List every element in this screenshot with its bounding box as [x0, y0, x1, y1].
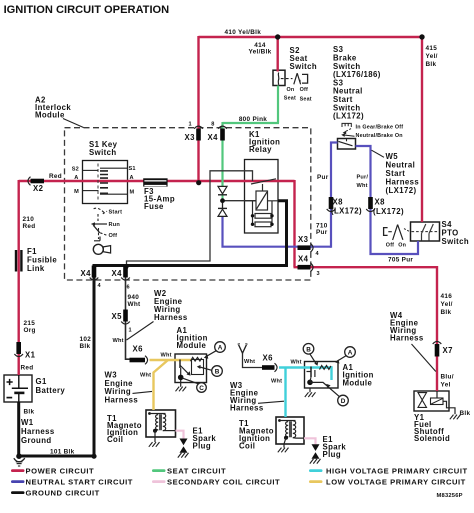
node top right corner: [419, 34, 424, 39]
wire X4 top down to diode (seat): [221, 122, 223, 186]
legend power circuit: [11, 469, 25, 472]
wire X6 left to module (low voltage primary): [150, 359, 192, 361]
key switch terminal M-right line: [100, 193, 128, 195]
wire stub to X6 right: [243, 353, 263, 368]
wire 710 Pur up to S3 switch (neutral start): [331, 143, 338, 248]
wire drop to right coil (high voltage primary): [284, 368, 286, 418]
svg-text:705 Pur: 705 Pur: [388, 257, 413, 264]
connector X8 right hook: [366, 209, 375, 212]
svg-text:Neutral/Brake On: Neutral/Brake On: [356, 133, 403, 139]
svg-text:Wht: Wht: [271, 379, 282, 385]
pointer A2 interlock module: [63, 119, 84, 128]
wire 800 Pink horizontal (seat): [223, 122, 280, 124]
connector X5 bar: [123, 310, 128, 322]
svg-text:Yel/Blk: Yel/Blk: [248, 49, 271, 56]
svg-text:SEAT CIRCUIT: SEAT CIRCUIT: [167, 466, 226, 475]
svg-text:HIGH VOLTAGE PRIMARY CIRCUIT: HIGH VOLTAGE PRIMARY CIRCUIT: [326, 466, 468, 475]
svg-text:Pur: Pur: [317, 174, 329, 181]
terminal circle C left: [197, 383, 207, 393]
svg-text:Harness: Harness: [105, 395, 139, 404]
svg-text:800 Pink: 800 Pink: [239, 116, 267, 123]
svg-text:Off: Off: [300, 87, 308, 93]
wire relay common thin black to X4 pin6: [127, 171, 253, 266]
svg-text:M: M: [130, 190, 135, 196]
ground module right: [309, 388, 311, 392]
svg-text:415: 415: [426, 45, 438, 52]
svg-text:Harness: Harness: [154, 313, 188, 322]
node X4 pin6 junction: [124, 264, 129, 269]
svg-text:Module: Module: [35, 111, 65, 120]
svg-text:A: A: [348, 350, 353, 357]
diode CR2 (lower): [218, 207, 227, 209]
pointer W3 left harness: [133, 391, 153, 393]
wire right coil to spark plug (secondary coil): [304, 438, 316, 444]
node diode junction: [220, 198, 225, 203]
PTO switch S4 box: [411, 222, 440, 241]
svg-text:B: B: [306, 346, 311, 353]
connector X4 bottom-left hook: [90, 278, 99, 281]
connector X2 hook: [28, 177, 31, 186]
node emitter dot right: [307, 380, 313, 386]
svg-text:S1: S1: [129, 166, 136, 172]
wire diode to X3 right corner (neutral start): [223, 216, 332, 246]
svg-text:Pur/: Pur/: [357, 175, 369, 181]
svg-text:Plug: Plug: [323, 450, 342, 459]
svg-text:Off: Off: [386, 242, 394, 248]
svg-text:215: 215: [24, 320, 36, 327]
svg-text:X7: X7: [443, 346, 453, 355]
pointer W4 harness: [412, 344, 436, 372]
svg-text:Blu/: Blu/: [441, 374, 454, 381]
svg-text:Harness: Harness: [21, 427, 55, 436]
legend seat circuit: [152, 469, 166, 472]
W5 pointer line: [372, 150, 385, 157]
svg-text:Yel/: Yel/: [441, 301, 453, 308]
node emitter dot: [178, 375, 184, 381]
legend high voltage primary circuit: [309, 469, 323, 472]
ground lead Y1: [443, 401, 455, 414]
terminal circle A left: [197, 342, 226, 393]
svg-text:Blk: Blk: [460, 410, 471, 417]
wire key switch row / fuse row (power): [19, 180, 295, 182]
svg-text:(LX172): (LX172): [333, 112, 364, 121]
ground plug right: [310, 459, 321, 464]
svg-text:Battery: Battery: [36, 386, 66, 395]
svg-text:Wht: Wht: [357, 183, 368, 189]
pointer line A right: [337, 355, 347, 361]
ground coil right: [284, 438, 286, 448]
key position Start dash: [103, 211, 107, 214]
key switch contact bars: [100, 171, 108, 193]
connector X8 left hook: [327, 209, 336, 212]
legend ground circuit: [11, 491, 25, 494]
wire left coil to spark plug (secondary coil): [176, 431, 184, 439]
key switch terminal S1 line: [100, 167, 128, 169]
ground plug left: [178, 453, 189, 458]
svg-text:Harness: Harness: [390, 334, 424, 343]
svg-text:GROUND CIRCUIT: GROUND CIRCUIT: [26, 488, 100, 497]
svg-text:A: A: [74, 175, 78, 181]
seat switch S2 box: [273, 70, 285, 85]
resistor R-a: [255, 214, 271, 219]
svg-text:Link: Link: [27, 264, 45, 273]
svg-text:SECONDARY COIL CIRCUIT: SECONDARY COIL CIRCUIT: [167, 477, 280, 486]
pointer W2 harness: [127, 322, 154, 341]
wire battery negative drop (ground): [17, 402, 20, 457]
connector X4 top hook: [218, 126, 227, 129]
relay coil box: [256, 191, 268, 210]
svg-text:X8: X8: [333, 198, 344, 207]
S4 pole 2: [429, 224, 433, 241]
S4 pole 1: [422, 224, 426, 241]
svg-text:(LX172): (LX172): [386, 186, 417, 195]
connector X3 right hook: [311, 243, 314, 252]
svg-text:D: D: [341, 398, 346, 405]
terminal circle B right: [303, 344, 355, 406]
svg-text:Plug: Plug: [193, 442, 212, 451]
wire 410 vertical to X3 top (power): [197, 36, 199, 183]
svg-text:Coil: Coil: [239, 442, 255, 451]
svg-text:Coil: Coil: [107, 435, 123, 444]
svg-text:(LX172): (LX172): [373, 207, 404, 216]
S3 arrow In Gear: [345, 129, 351, 132]
svg-text:Run: Run: [109, 222, 121, 228]
key position Run arrow: [94, 223, 108, 225]
wire diode junction into relay coil: [224, 200, 256, 202]
svg-text:Module: Module: [343, 378, 373, 387]
connector X6 left hook: [145, 356, 148, 365]
svg-text:Org: Org: [24, 327, 36, 334]
resistor zigzag: [191, 357, 202, 361]
transistor bars right: [310, 367, 312, 378]
svg-text:Module: Module: [177, 341, 207, 350]
connector X4 right bar: [298, 265, 311, 270]
solenoid coil rect: [436, 391, 438, 398]
svg-text:Seat: Seat: [284, 95, 296, 101]
battery G1 box: [4, 375, 32, 402]
node battery ground corner: [16, 453, 22, 459]
svg-text:X4: X4: [112, 269, 123, 278]
svg-text:Wht: Wht: [244, 359, 255, 365]
terminal circle B left: [212, 366, 223, 377]
pointer line D: [310, 382, 340, 397]
seat switch bracket: [302, 74, 308, 83]
wire ground bus inside interlock (ground): [94, 264, 288, 267]
connector X4 bottom-right hook: [121, 278, 130, 281]
wire X6 right to module (high voltage primary): [279, 368, 332, 381]
pointer line C: [182, 378, 198, 384]
pointer line B right: [310, 354, 317, 364]
svg-text:Switch: Switch: [442, 237, 470, 246]
wire branch to left coil (low voltage primary): [154, 360, 169, 410]
svg-text:102: 102: [80, 336, 92, 343]
node relay resistor dots: [251, 214, 254, 217]
relay contact stub: [262, 184, 264, 191]
inner box: [192, 360, 204, 375]
secondary winding right: [293, 421, 296, 438]
connector X4 right hook: [311, 263, 314, 272]
svg-text:X6: X6: [133, 345, 144, 354]
svg-text:Start: Start: [109, 209, 123, 215]
S4 dashed actuator line: [412, 231, 439, 233]
svg-text:6: 6: [127, 284, 130, 290]
svg-text:X2: X2: [33, 184, 44, 193]
key position Off dash: [100, 233, 106, 235]
terminal circle D right: [338, 395, 349, 406]
svg-text:On: On: [287, 87, 295, 93]
relay K1 box: [245, 160, 279, 234]
svg-text:Solenoid: Solenoid: [414, 434, 450, 443]
connector X1 hook: [14, 354, 23, 357]
coil T1 left box: [146, 410, 176, 437]
svg-text:C: C: [199, 385, 204, 392]
node fuse/X3 junction: [196, 180, 201, 185]
wire 940 Wht X4 to X5: [125, 277, 127, 310]
svg-text:X4: X4: [208, 133, 219, 142]
resistor R-b: [255, 222, 271, 227]
connector X4 top bar: [220, 129, 225, 141]
svg-text:Ground: Ground: [21, 436, 52, 445]
pointer line A: [205, 351, 216, 357]
connector X6 left bar: [130, 358, 146, 363]
wire relay to ground bus thick black: [278, 201, 287, 266]
ground module left: [180, 380, 182, 387]
relay contact diagonal: [251, 179, 276, 184]
svg-text:Fuse: Fuse: [144, 202, 164, 211]
secondary winding: [163, 414, 166, 431]
svg-text:X4: X4: [298, 255, 309, 264]
wire 101 Blk bus to battery (ground): [19, 455, 96, 458]
transformer core right: [290, 421, 291, 437]
wire S3 right side down (neutral start): [356, 146, 419, 254]
svg-text:210: 210: [23, 216, 35, 223]
svg-text:1: 1: [129, 328, 132, 334]
ignition module A1 left box: [175, 354, 207, 383]
svg-text:Wht: Wht: [140, 373, 151, 379]
svg-text:Red: Red: [49, 173, 62, 180]
wire 415 Yel/Blk right vertical (power): [421, 36, 423, 222]
seat switch arm: [294, 73, 301, 84]
wire 416 Yel/Blk right vertical to Y1 (power): [436, 266, 438, 391]
svg-text:Blk: Blk: [441, 309, 452, 316]
valve bowtie: [418, 393, 427, 400]
svg-text:Blk: Blk: [80, 343, 91, 350]
svg-text:X6: X6: [263, 354, 274, 363]
brake/neutral switch S3 box: [338, 139, 356, 150]
svg-text:B: B: [215, 369, 220, 376]
svg-text:M: M: [74, 189, 79, 195]
svg-text:Seat: Seat: [300, 97, 312, 103]
svg-text:101 Blk: 101 Blk: [50, 449, 75, 456]
connector X3 top bar: [196, 129, 201, 141]
connector X3 right bar: [298, 245, 311, 250]
svg-text:Red: Red: [23, 223, 36, 230]
svg-text:Off: Off: [109, 233, 118, 239]
wire X5 to X6 left: [126, 321, 131, 359]
wire resistor rails: [253, 201, 273, 225]
coil T1 right box: [276, 417, 304, 444]
connector X4 bottom-right bar (pin 6): [123, 266, 128, 278]
wire 414 Yel/Blk seat switch drop (power): [277, 36, 279, 72]
svg-text:Pur: Pur: [316, 229, 328, 236]
svg-text:410 Yel/Blk: 410 Yel/Blk: [225, 29, 262, 36]
node seat drop junction: [275, 34, 280, 39]
svg-text:M83256P: M83256P: [437, 493, 463, 499]
connector X1 bar: [16, 342, 21, 354]
connector X8 right bar: [368, 197, 373, 209]
diode CR1 (upper): [218, 186, 227, 193]
svg-text:416: 416: [441, 293, 453, 300]
svg-text:3: 3: [317, 271, 320, 277]
wire diode stub (seat): [222, 195, 224, 199]
ignition module A1 right box: [305, 362, 339, 389]
svg-text:Wht: Wht: [291, 360, 302, 366]
connector X7 bar: [435, 344, 440, 357]
transistor bar: [179, 360, 181, 369]
svg-text:X5: X5: [112, 312, 123, 321]
S3 arrow Neutral: [344, 135, 355, 136]
wire 410 Yel/Blk top horizontal (power): [199, 36, 423, 38]
svg-text:X3: X3: [185, 133, 196, 142]
svg-text:G1: G1: [36, 377, 47, 386]
seat switch link dashes: [281, 78, 293, 80]
svg-text:X1: X1: [25, 351, 36, 360]
svg-text:Wht: Wht: [113, 338, 124, 344]
legend low voltage primary circuit: [309, 480, 323, 483]
connector X8 left bar: [329, 197, 334, 209]
svg-text:Switch: Switch: [290, 62, 318, 71]
ground coil left: [154, 431, 156, 442]
svg-text:Harness: Harness: [230, 404, 264, 413]
primary winding: [156, 415, 159, 430]
key switch terminal S2 line: [83, 169, 99, 171]
svg-text:S2: S2: [72, 167, 79, 173]
transformer core: [160, 414, 161, 430]
wire X4 right to corner (power): [294, 266, 438, 268]
key switch S1 box: [83, 161, 128, 204]
wire diode junction stub: [222, 203, 224, 208]
svg-text:A: A: [218, 345, 223, 352]
S4 lever arm: [393, 225, 403, 240]
svg-text:Yel: Yel: [441, 382, 451, 389]
connector X4 bottom-left bar (pin 4): [92, 266, 97, 278]
key switch wafer center dashed line: [97, 164, 99, 202]
pointer W3 right harness: [258, 401, 284, 403]
terminal circle A right: [345, 347, 356, 358]
key glyph: [93, 244, 103, 254]
connector X7 hook: [433, 341, 442, 344]
key bottom corner: [94, 237, 100, 241]
resistor zigzag right: [320, 366, 331, 370]
connector X3 top hook: [194, 126, 203, 129]
key positions dashed arc: [94, 208, 104, 212]
S3 mini position icon: [342, 123, 351, 127]
fuel solenoid Y1 box: [414, 391, 449, 411]
svg-text:A: A: [130, 175, 134, 181]
svg-text:(LX172): (LX172): [331, 207, 362, 216]
svg-text:Switch: Switch: [89, 148, 117, 157]
pointer line B: [200, 367, 212, 370]
transistor collector lead: [180, 368, 182, 377]
svg-text:LOW VOLTAGE PRIMARY CIRCUIT: LOW VOLTAGE PRIMARY CIRCUIT: [326, 477, 466, 486]
svg-text:Yel/: Yel/: [426, 53, 438, 60]
svg-text:8: 8: [211, 121, 214, 127]
svg-text:Wht: Wht: [161, 353, 172, 359]
svg-text:1: 1: [189, 121, 192, 127]
svg-text:IGNITION CIRCUIT OPERATION: IGNITION CIRCUIT OPERATION: [4, 4, 170, 16]
S4 lever bracket: [384, 228, 388, 236]
wire coil row: [245, 200, 279, 202]
svg-text:X8: X8: [375, 198, 386, 207]
svg-text:X4: X4: [81, 269, 92, 278]
S3 blade: [339, 141, 353, 145]
key switch terminal M-left line: [83, 190, 99, 192]
svg-text:Wht: Wht: [128, 301, 142, 308]
svg-text:Red: Red: [21, 365, 34, 372]
interlock module A2 dashed box: [65, 128, 311, 280]
connector X6 right hook: [275, 363, 278, 372]
connector X6 right bar: [262, 365, 275, 370]
svg-text:On: On: [398, 242, 406, 248]
svg-text:Relay: Relay: [249, 145, 272, 154]
transistor emitter: [180, 366, 189, 375]
svg-text:X3: X3: [298, 235, 309, 244]
connector X5 hook: [121, 322, 130, 325]
svg-text:Blk: Blk: [24, 409, 35, 416]
wire 102 Blk vertical (ground): [93, 264, 96, 456]
wire relay to X4 right vertical (power): [293, 180, 295, 267]
primary winding right: [286, 422, 289, 437]
connector X2 bar: [31, 179, 45, 184]
svg-text:Blk: Blk: [426, 61, 437, 68]
wire 210/215 left vertical to battery (power): [18, 180, 20, 375]
svg-text:NEUTRAL START CIRCUIT: NEUTRAL START CIRCUIT: [26, 477, 133, 486]
svg-text:In Gear/Brake Off: In Gear/Brake Off: [356, 125, 404, 131]
legend secondary coil circuit: [152, 480, 166, 483]
svg-text:POWER CIRCUIT: POWER CIRCUIT: [26, 466, 95, 475]
legend neutral start circuit: [11, 480, 25, 483]
svg-text:W1: W1: [21, 418, 34, 427]
wire seat switch to 800 Pink corner (seat): [277, 86, 279, 124]
